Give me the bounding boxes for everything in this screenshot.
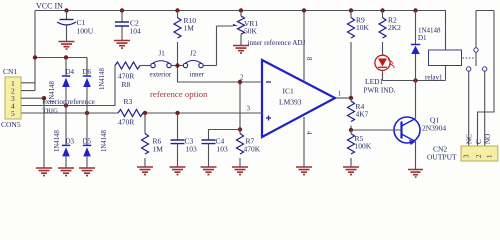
svg-text:103: 103 (186, 145, 198, 154)
node junction dot D5 tap (85, 111, 89, 115)
svg-text:CN1: CN1 (3, 67, 17, 76)
relay pole circle (474, 48, 478, 52)
svg-text:4K7: 4K7 (356, 110, 369, 119)
svg-text:D6: D6 (83, 68, 92, 76)
diode D4 (62, 58, 75, 106)
resistor R3 (118, 97, 143, 127)
wire pin2 reference row (178, 66, 263, 83)
svg-text:470K: 470K (244, 145, 261, 154)
relay relay1 coil (425, 11, 462, 82)
wire TRIG / pin3 row (21, 112, 262, 114)
op-amp U1 LM393 (262, 60, 335, 137)
wire LED bottom to relay return row (383, 80, 446, 82)
svg-text:J1: J1 (159, 50, 166, 58)
svg-text:J2: J2 (190, 50, 197, 58)
connector CN2 (427, 145, 498, 162)
transistor Q1 (394, 81, 446, 170)
node junction dot rail C2 (120, 8, 124, 12)
diode D1 (411, 11, 441, 81)
svg-text:103: 103 (217, 145, 229, 154)
ground under C1 (59, 42, 75, 50)
svg-text:100K: 100K (355, 142, 372, 151)
svg-text:OUTPUT: OUTPUT (427, 153, 457, 162)
resistor R8 (115, 62, 151, 89)
jumper J2 (180, 50, 217, 79)
node junction dot output (349, 96, 353, 100)
ground under D3 (58, 168, 74, 176)
svg-text:1N4148: 1N4148 (49, 80, 56, 103)
svg-text:exterior: exterior (150, 71, 172, 79)
connector CN1 (1, 67, 21, 129)
node junction dot rail D1 (413, 8, 417, 12)
svg-text:1N4148: 1N4148 (101, 129, 108, 152)
wire NO to CN2 (484, 71, 486, 146)
node junction dot clamp row left (33, 55, 37, 59)
resistor R10 (174, 11, 196, 66)
wire CN1 pin3 to ground (21, 98, 44, 167)
ground under pin 4 (296, 167, 312, 175)
node junction dot rail R10 (175, 8, 179, 12)
node junction dot pin3 (42, 96, 46, 100)
diode D5 (83, 113, 92, 168)
svg-text:R8: R8 (122, 80, 131, 89)
node junction dot rail C1 (64, 8, 68, 12)
svg-text:100U: 100U (77, 27, 94, 36)
node junction dot rail R9 (349, 8, 353, 12)
wire relay dotted link (463, 57, 475, 59)
potentiometer VR1 (217, 11, 259, 46)
wire base row to Q1 (351, 129, 402, 131)
capacitor C3 (171, 113, 198, 167)
svg-text:3: 3 (247, 105, 251, 113)
diode D6 (83, 58, 92, 114)
node junction dot R7 branch (238, 80, 242, 84)
svg-text:TRIG: TRIG (43, 107, 59, 114)
svg-text:5: 5 (11, 109, 15, 118)
svg-text:D1: D1 (418, 34, 427, 42)
wire clamp row upper (35, 58, 87, 77)
resistor R6 (142, 113, 164, 167)
node junction dot clamp row D4 (64, 55, 68, 59)
svg-text:inner reference ADJ: inner reference ADJ (248, 39, 306, 47)
svg-text:2: 2 (475, 154, 483, 158)
resistor R5 (348, 130, 372, 167)
relay contact NC circle (467, 67, 471, 71)
ground under C4 (201, 167, 217, 175)
node junction dot rail pin8 (302, 8, 306, 12)
node junction dot collector row (413, 78, 417, 82)
wire C route right side (478, 11, 495, 147)
svg-text:3: 3 (463, 154, 471, 158)
svg-text:1: 1 (338, 90, 342, 98)
svg-text:CON5: CON5 (1, 120, 21, 129)
ground under VR1 (233, 46, 249, 54)
capacitor C4 (202, 137, 229, 167)
ground under pin3 (36, 168, 52, 176)
svg-text:470R: 470R (118, 118, 134, 127)
wire R7/C4 branch vertical (239, 82, 241, 130)
svg-text:2N3904: 2N3904 (422, 124, 446, 133)
svg-text:8: 8 (305, 57, 313, 61)
node junction dot rail VR1 (239, 8, 243, 12)
svg-text:1M: 1M (184, 24, 195, 33)
LED LED1 (364, 55, 396, 94)
wire exterior reference row (21, 66, 115, 106)
resistor R9 (348, 11, 370, 99)
wire C4 jog (209, 130, 241, 140)
wire CN1 pin1 (21, 82, 35, 84)
resistor R4 (348, 98, 369, 130)
svg-text:1M: 1M (153, 145, 164, 154)
svg-text:1N4148: 1N4148 (54, 129, 61, 152)
svg-text:104: 104 (130, 27, 142, 36)
svg-text:PWR IND.: PWR IND. (364, 87, 396, 95)
pin 8 wire (303, 11, 305, 83)
jumper J1 (150, 50, 176, 79)
svg-text:NO: NO (484, 134, 492, 144)
svg-text:R3: R3 (124, 97, 133, 106)
ground under Q1 (408, 170, 423, 178)
svg-text:IC1: IC1 (283, 87, 295, 96)
wire NC to CN2 (468, 71, 470, 146)
svg-text:2K2: 2K2 (388, 23, 401, 32)
relay contact pole (476, 11, 494, 67)
ground under R5 (343, 167, 359, 175)
svg-text:C: C (475, 139, 483, 144)
node junction dot jumper common (175, 63, 179, 67)
node junction dot R6 top (143, 111, 147, 115)
node junction dot D4 anode tap (64, 103, 68, 107)
svg-text:1N4148: 1N4148 (99, 67, 106, 90)
capacitor C2 (115, 11, 141, 41)
svg-text:relay1: relay1 (425, 74, 443, 82)
svg-text:D4: D4 (66, 68, 75, 76)
resistor R2 (379, 11, 401, 56)
node junction dot base row (349, 128, 353, 132)
node junction dot R7 top (238, 127, 242, 131)
wire VCC top rail (35, 11, 446, 91)
svg-text:10K: 10K (356, 23, 370, 32)
svg-text:D5: D5 (83, 138, 92, 146)
resistor R7 (237, 130, 261, 167)
svg-text:1: 1 (486, 154, 494, 158)
diode D3 (62, 106, 75, 168)
svg-text:inner: inner (190, 71, 205, 79)
node junction dot rail R2 (380, 8, 384, 12)
svg-text:reference option: reference option (150, 89, 208, 99)
wire CN1 pin2 (21, 90, 35, 92)
pin 4 wire (303, 117, 305, 167)
svg-text:50K: 50K (244, 27, 258, 36)
svg-text:NC: NC (465, 134, 473, 144)
svg-text:D3: D3 (66, 138, 75, 146)
wire VR1 wiper to J2 (216, 26, 218, 66)
svg-text:VCC IN: VCC IN (36, 2, 63, 11)
capacitor C1 (57, 11, 94, 42)
ground under C3 (170, 167, 186, 175)
ground under D5 (79, 168, 95, 176)
wire opamp output row (335, 97, 351, 99)
node junction dot C3 top (175, 111, 179, 115)
ground under R7 (232, 167, 248, 175)
svg-text:4: 4 (305, 131, 313, 135)
ground under R6 (137, 167, 153, 175)
relay contact NO circle (483, 67, 487, 71)
svg-text:LM393: LM393 (279, 98, 302, 107)
ground under C2 (114, 41, 130, 49)
svg-text:LED1: LED1 (365, 77, 384, 86)
